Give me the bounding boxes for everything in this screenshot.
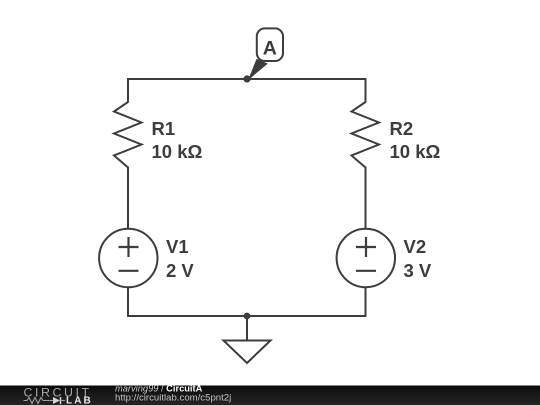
wire right branch upper	[365, 78, 367, 103]
wire R1 to V1	[127, 167, 129, 230]
node A junction dot	[243, 75, 250, 82]
V2 plus sign	[356, 246, 376, 248]
ground stem	[246, 316, 248, 340]
wire bottom rail	[128, 315, 366, 317]
svg-text:2 V: 2 V	[166, 260, 194, 281]
wire V1 to bottom rail	[127, 287, 129, 317]
wire left branch upper	[127, 78, 129, 103]
svg-text:V2: V2	[404, 236, 427, 257]
V1 plus sign	[119, 246, 139, 248]
svg-text:10 kΩ: 10 kΩ	[390, 141, 441, 162]
svg-text:LAB: LAB	[66, 396, 93, 405]
node A balloon	[257, 28, 283, 61]
ground symbol	[224, 341, 271, 364]
voltage source V2	[337, 229, 395, 287]
wire top rail	[128, 78, 366, 80]
V1 minus sign	[119, 270, 139, 272]
svg-text:http://circuitlab.com/c5pnt2j: http://circuitlab.com/c5pnt2j	[115, 393, 231, 404]
logo resistor squiggle	[24, 398, 50, 404]
svg-text:A: A	[263, 38, 277, 60]
node A pointer	[248, 59, 268, 80]
logo diode	[49, 400, 53, 402]
resistor R1	[114, 102, 142, 168]
V2 minus sign	[356, 270, 376, 272]
ground junction dot	[244, 313, 251, 320]
svg-text:10 kΩ: 10 kΩ	[152, 141, 203, 162]
wire R2 to V2	[365, 167, 367, 230]
svg-text:R1: R1	[152, 118, 176, 139]
svg-text:R2: R2	[390, 118, 414, 139]
resistor R2	[352, 102, 380, 168]
svg-text:3 V: 3 V	[404, 260, 432, 281]
voltage source V1	[99, 229, 157, 287]
svg-text:V1: V1	[166, 236, 189, 257]
wire V2 to bottom rail	[365, 287, 367, 317]
